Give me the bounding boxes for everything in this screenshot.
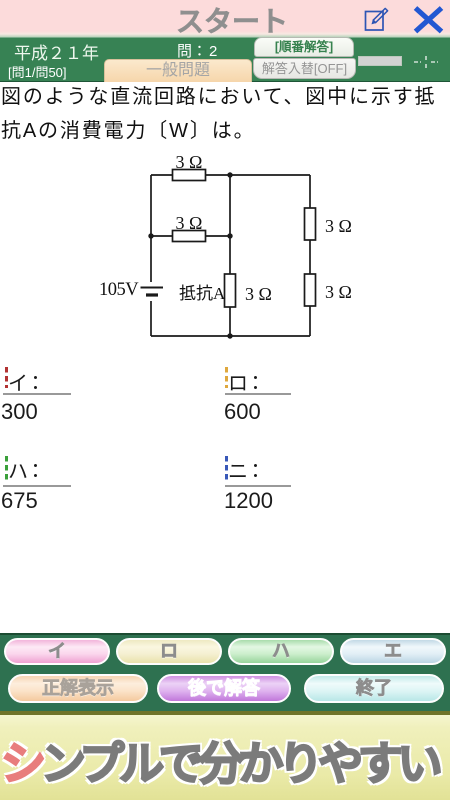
dark green info bar <box>0 38 450 82</box>
pill button エ <box>340 638 446 665</box>
wire top horizontal <box>151 174 310 176</box>
resistor R2 3Ω middle <box>173 231 206 242</box>
wire center vertical <box>229 175 231 336</box>
resistor A (抵抗A) 3Ω center <box>225 274 236 307</box>
wire right vertical <box>309 175 311 336</box>
svg-text:3 Ω: 3 Ω <box>325 216 352 236</box>
svg-text:3 Ω: 3 Ω <box>325 282 352 302</box>
svg-text:105V: 105V <box>99 280 139 300</box>
junction node bottom-center <box>227 333 232 338</box>
svg-text:抵抗A: 抵抗A <box>179 284 226 303</box>
answer option ハ <box>5 456 8 481</box>
answer option ロ <box>225 367 228 388</box>
bottom banner <box>0 715 450 800</box>
svg-text:3 Ω: 3 Ω <box>176 152 203 172</box>
pill button 終了 <box>304 674 444 703</box>
解答入替 button <box>253 58 356 79</box>
pill button 正解表示 <box>8 674 148 703</box>
順番解答 button <box>254 37 354 57</box>
pill button 後で解答 <box>157 674 291 703</box>
resistor R3 3Ω right upper <box>305 208 316 240</box>
top pink title bar <box>0 0 450 38</box>
svg-text:3 Ω: 3 Ω <box>245 284 272 304</box>
gray slider bar <box>358 56 402 66</box>
一般問題 tab <box>104 59 252 82</box>
junction node center-middle <box>227 233 232 238</box>
edit icon <box>362 4 392 34</box>
pill button ハ <box>228 638 334 665</box>
question text <box>1 80 450 148</box>
battery V1 105V short plate <box>146 293 158 296</box>
junction node top-center <box>227 172 232 177</box>
olive separator line <box>0 711 450 715</box>
answer option イ <box>5 367 8 388</box>
pill button ロ <box>116 638 222 665</box>
pill button イ <box>4 638 110 665</box>
answer option ニ <box>225 456 228 481</box>
wire bottom horizontal <box>151 335 310 337</box>
wire left vertical (below battery) <box>150 301 152 336</box>
wire middle horizontal <box>151 235 230 237</box>
resistor R4 3Ω right lower <box>305 274 316 306</box>
dashed crosshair handle <box>412 55 440 69</box>
svg-text:3 Ω: 3 Ω <box>176 213 203 233</box>
close X icon <box>412 5 446 35</box>
resistor R1 3Ω top <box>173 170 206 181</box>
bottom green panel <box>0 633 450 711</box>
junction node left-middle <box>148 233 153 238</box>
circuit schematic <box>90 148 380 348</box>
wire left vertical (above battery) <box>150 175 152 282</box>
battery V1 105V long plate <box>141 287 164 289</box>
